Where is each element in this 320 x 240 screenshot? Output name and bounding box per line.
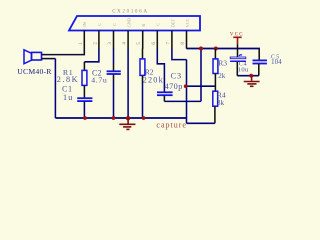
svg-text:R: R — [141, 24, 146, 27]
wire capture net — [187, 122, 215, 124]
wire C3 bottom to node — [163, 96, 165, 102]
wire R2 below — [142, 75, 144, 82]
svg-text:GND: GND — [127, 18, 132, 28]
U1 pin number labels 1-8 — [79, 42, 186, 45]
wire sensor return vertical — [54, 59, 56, 118]
svg-text:2.8K: 2.8K — [57, 75, 79, 84]
svg-text:C: C — [112, 23, 117, 26]
svg-text:1u: 1u — [63, 93, 73, 102]
svg-text:capture: capture — [156, 121, 187, 130]
ground symbol right — [244, 76, 260, 87]
junction dot — [142, 116, 146, 120]
wire sensor bottom horizontal — [42, 58, 56, 60]
capacitor C4 bottom lead — [236, 62, 238, 76]
transducer X1 horn — [24, 50, 32, 64]
U1 pin 8 stub — [186, 31, 188, 49]
svg-text:470p: 470p — [165, 82, 183, 91]
U1 pin 1 stub — [83, 31, 85, 49]
transducer X1 body — [32, 52, 42, 60]
svg-text:10u: 10u — [238, 67, 249, 74]
resistor R2 — [140, 59, 145, 76]
junction dot — [249, 74, 253, 78]
resistor R4 — [213, 91, 218, 106]
svg-text:4.7u: 4.7u — [91, 75, 107, 84]
svg-text:VCC: VCC — [185, 18, 190, 27]
wire pin 3 down — [113, 49, 115, 65]
wire output vertical — [186, 60, 188, 124]
capacitor C2 — [107, 71, 121, 74]
capacitor C4 top lead — [237, 45, 239, 58]
resistor R1 — [82, 70, 87, 85]
junction dot — [112, 116, 116, 120]
svg-text:CX20106A: CX20106A — [112, 10, 149, 15]
wire sensor top to pin 1 — [42, 49, 85, 55]
svg-text:C: C — [97, 23, 102, 26]
wire to C2 top — [113, 64, 115, 71]
capacitor C4 polarized — [230, 55, 246, 62]
svg-text:VCC: VCC — [230, 33, 244, 38]
wire R1 to C1 — [83, 85, 85, 98]
svg-text:C: C — [156, 23, 161, 26]
ground rail — [55, 117, 186, 119]
svg-text:C3: C3 — [171, 71, 183, 80]
U1 pin 6 stub — [156, 31, 158, 49]
wire C2 below plates — [113, 75, 115, 82]
wire VCC drop vertical — [200, 49, 202, 102]
U1 pin 3 stub — [113, 31, 115, 49]
sheet background — [0, 0, 296, 136]
wire pin 6 jog to C3 — [157, 49, 164, 93]
capacitor C5 top lead — [258, 49, 260, 61]
op-amp U1 chip body CX20106A — [69, 16, 200, 31]
capacitor C5 bottom lead — [258, 64, 260, 76]
junction dot — [126, 116, 130, 120]
capacitor C1 — [77, 98, 92, 101]
wire output branch to divider — [187, 85, 216, 87]
wire R3 to R4 — [214, 74, 216, 92]
wire C1 to ground rail — [83, 102, 85, 118]
U1 pin 5 stub — [142, 31, 144, 49]
capacitor C3 — [157, 92, 173, 95]
svg-text:220k: 220k — [143, 76, 164, 85]
svg-text:104: 104 — [271, 59, 282, 66]
wire rail to R3 — [214, 49, 216, 59]
U1 pin 7 stub — [171, 31, 173, 49]
wire pin 4 to ground rail — [127, 49, 129, 119]
U1 pin name labels (rotated) — [82, 18, 190, 28]
U1 pin 4 stub — [127, 31, 129, 49]
wire pin 5 to R2 — [142, 49, 144, 59]
resistor R3 — [213, 59, 218, 74]
svg-text:DET: DET — [171, 19, 176, 28]
svg-text:R3: R3 — [218, 59, 227, 68]
capacitor C5 — [253, 60, 267, 63]
U1 pin 2 stub — [98, 31, 100, 49]
ground symbol bottom — [119, 118, 135, 129]
svg-text:2k: 2k — [218, 72, 226, 80]
junction dot — [199, 47, 203, 51]
junction dot — [83, 116, 87, 120]
junction dot — [214, 47, 218, 51]
wire C3 node horizontal to VCC drop — [164, 100, 201, 102]
wire pin 7 jog right — [172, 49, 187, 60]
junction dot — [184, 84, 188, 88]
wire R2 to ground rail — [142, 82, 144, 118]
svg-text:UCM40-R: UCM40-R — [17, 67, 52, 76]
wire R4 to capture net — [214, 106, 216, 123]
wire C4/C5 bottom to ground — [237, 75, 258, 77]
wire VCC rail pin 8 to C5 — [187, 48, 260, 50]
wire pin 2 jog to R1 — [84, 49, 99, 62]
power VCC symbol — [233, 37, 241, 44]
wire C2 to ground rail — [113, 81, 115, 118]
wire jog to R1 top — [83, 62, 85, 71]
svg-text:3k: 3k — [217, 99, 225, 107]
